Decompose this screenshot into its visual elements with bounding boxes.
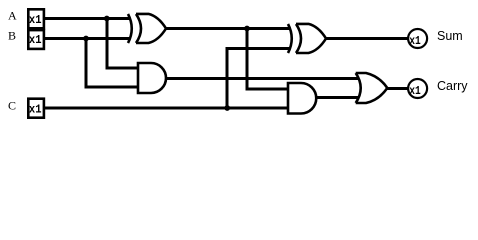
svg-text:x1: x1 (409, 84, 421, 98)
input pin C box (28, 99, 44, 118)
output Sum circle (408, 29, 427, 48)
svg-text:C: C (8, 99, 16, 113)
xor gate XOR2 input arc (288, 24, 292, 53)
node A junction dot (104, 16, 110, 22)
svg-text:A: A (8, 9, 17, 23)
xor gate XOR1 input arc (128, 14, 132, 43)
output Carry circle (408, 79, 427, 98)
wire XOR1 output to XOR2 (166, 27, 291, 30)
or gate OR1 (356, 73, 388, 103)
and gate AND2 (288, 83, 316, 114)
input pin A box (28, 9, 44, 28)
svg-text:Sum: Sum (437, 29, 463, 43)
xor gate XOR2 body (296, 24, 326, 53)
wire A to XOR1 (44, 17, 130, 20)
input pin B box (28, 30, 44, 49)
wire AND1 output to OR input (166, 77, 360, 80)
wire B branch down to AND1 bottom input (86, 39, 138, 88)
wire OR output to Carry (387, 87, 408, 90)
and gate AND1 (138, 63, 166, 93)
wire A branch down to AND1 top input (107, 19, 138, 69)
wire S1 branch down to AND2 top input (247, 29, 287, 90)
wire C to AND2 (44, 107, 287, 110)
svg-text:x1: x1 (29, 13, 42, 27)
svg-text:x1: x1 (409, 34, 421, 48)
svg-text:Carry: Carry (437, 79, 468, 93)
node S1 junction dot (244, 26, 250, 32)
wire XOR2 output to Sum (326, 37, 408, 40)
svg-text:B: B (8, 29, 16, 43)
svg-text:x1: x1 (29, 33, 42, 47)
node B junction dot (83, 36, 89, 42)
svg-text:x1: x1 (29, 103, 42, 117)
node C junction dot (224, 105, 230, 111)
wire B to XOR1 (44, 37, 130, 40)
xor gate XOR1 body (136, 14, 166, 43)
wire AND2 output to OR input (316, 96, 359, 99)
wire C branch up to XOR2 bottom input (227, 49, 290, 109)
